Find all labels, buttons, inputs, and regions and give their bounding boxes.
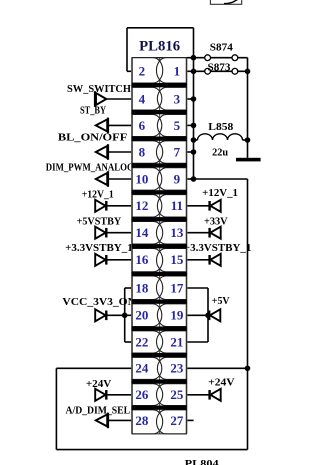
svg-text:4: 4 xyxy=(139,91,146,106)
separator bar 7 xyxy=(132,244,187,248)
svg-text:+24V: +24V xyxy=(208,378,235,389)
svg-text:1: 1 xyxy=(174,64,181,79)
node junction S873 right end xyxy=(245,69,251,75)
separator bar 5 xyxy=(132,190,187,194)
pin 27 outline xyxy=(156,410,186,434)
node pin5 junction xyxy=(191,123,197,129)
wire pin 3 stub xyxy=(187,98,194,100)
port arrow ST_BY (pin 6) xyxy=(96,118,132,134)
pin 7 cell xyxy=(156,141,186,164)
svg-text:24: 24 xyxy=(135,361,149,376)
pin 17 outline xyxy=(156,276,186,300)
svg-text:23: 23 xyxy=(170,361,184,376)
pin 26 outline xyxy=(132,384,163,406)
wire pin 5 stub xyxy=(187,124,194,126)
pin 20 outline xyxy=(132,304,162,327)
node pin7 junction xyxy=(191,149,197,155)
power arrow +33V (pin 13) xyxy=(187,227,221,239)
node VCC_3V3_ON junction xyxy=(122,313,128,319)
power arrow +5VSTBY (pin 14) xyxy=(95,227,131,239)
pin 4 cell xyxy=(132,87,162,110)
wire pin27 stub xyxy=(187,419,194,421)
pin 1 outline xyxy=(156,58,186,83)
pin 12 cell xyxy=(132,195,162,218)
svg-text:17: 17 xyxy=(170,280,184,295)
svg-text:3: 3 xyxy=(174,91,181,106)
power arrow +12V_1 (pin 11) xyxy=(187,200,221,212)
svg-text:22: 22 xyxy=(135,334,148,349)
svg-text:2: 2 xyxy=(139,64,146,79)
svg-text:L858: L858 xyxy=(208,122,233,133)
wire pin23 stub xyxy=(187,367,248,369)
separator bar 13 xyxy=(132,406,187,410)
pin 21 cell xyxy=(157,331,187,353)
wire left rail up to pin24 xyxy=(56,368,131,449)
svg-text:21: 21 xyxy=(170,334,183,349)
power arrow +3.3VSTBY_1 (pin 15) xyxy=(187,254,221,266)
wire S874/S873 to L858 right terminal xyxy=(247,58,249,140)
svg-text:A/D_DIM_SEL: A/D_DIM_SEL xyxy=(66,406,131,417)
svg-text:18: 18 xyxy=(135,280,149,295)
svg-text:15: 15 xyxy=(170,252,184,267)
pin 22 outline xyxy=(132,331,163,353)
svg-text:26: 26 xyxy=(135,387,149,402)
pin 6 cell xyxy=(132,114,162,136)
separator bar 2 xyxy=(132,110,187,114)
pin 28 cell xyxy=(132,410,163,434)
svg-text:10: 10 xyxy=(135,171,148,186)
pin 4 outline xyxy=(132,87,162,110)
svg-text:16: 16 xyxy=(135,252,149,267)
power arrow +5V (pins 17,19,21) xyxy=(208,309,220,321)
off-page symbol box (top edge, partially cut) xyxy=(210,0,241,4)
wire right rail down xyxy=(247,179,249,450)
svg-text:PL816: PL816 xyxy=(139,39,180,55)
pin 22 cell xyxy=(132,331,163,353)
port arrow A/D_DIM_SEL (pin 28) xyxy=(96,413,132,429)
wire pin2 loop: stub left, up, across top, down to bus xyxy=(127,28,194,72)
svg-text:12: 12 xyxy=(135,198,148,213)
pin 28 outline xyxy=(132,410,163,434)
separator bar 11 xyxy=(132,353,187,357)
pin 17 cell xyxy=(156,276,186,300)
svg-text:28: 28 xyxy=(135,413,149,428)
pin 13 outline xyxy=(156,221,186,244)
port arrow SW_SWITCH (pin 4) xyxy=(94,91,132,107)
power arrow +12V_1 (pin 12) xyxy=(95,200,131,212)
svg-text:DIM_PWM_ANALOG: DIM_PWM_ANALOG xyxy=(46,163,134,174)
svg-text:19: 19 xyxy=(170,308,184,323)
pin 8 cell xyxy=(132,141,163,164)
svg-text:BL_ON/OFF: BL_ON/OFF xyxy=(58,132,127,143)
pin 25 outline xyxy=(156,384,186,406)
separator bar 12 xyxy=(132,379,187,383)
svg-text:ST_BY: ST_BY xyxy=(80,105,106,116)
connector grid frame xyxy=(132,58,194,434)
pin 19 outline xyxy=(157,304,186,327)
svg-text:+3.3VSTBY_1: +3.3VSTBY_1 xyxy=(184,243,252,254)
pin 2 cell xyxy=(132,58,163,83)
pin 1 cell xyxy=(156,58,186,83)
pin 15 outline xyxy=(157,248,187,271)
separator bar 4 xyxy=(132,163,187,167)
pin 24 outline xyxy=(132,357,162,379)
pin 5 outline xyxy=(157,114,186,136)
pin 2 outline xyxy=(132,58,163,83)
wire pin 9 stub xyxy=(187,178,194,180)
svg-text:7: 7 xyxy=(174,144,181,159)
node junction bus/pin1/S873 xyxy=(191,69,197,75)
svg-text:+3.3VSTBY_1: +3.3VSTBY_1 xyxy=(65,243,133,254)
pin 9 cell xyxy=(157,168,186,191)
pin 10 outline xyxy=(132,168,162,191)
pin 23 outline xyxy=(157,357,186,379)
svg-text:13: 13 xyxy=(170,225,184,240)
pin 15 cell xyxy=(157,248,187,271)
node L858 left junction xyxy=(191,137,197,143)
jumper S873 xyxy=(194,68,248,74)
svg-text:27: 27 xyxy=(170,413,184,428)
node pin23 junction xyxy=(245,366,251,372)
wire right bus (pins 1,3,5,7,9) xyxy=(193,58,195,179)
node L858 right junction xyxy=(245,137,251,143)
pin 16 outline xyxy=(132,248,162,271)
wire bottom rail xyxy=(56,449,247,451)
wire +5V tie (pins 17,19,21) xyxy=(187,288,208,342)
svg-text:20: 20 xyxy=(135,308,148,323)
pin 6 outline xyxy=(132,114,162,136)
svg-text:S874: S874 xyxy=(210,43,233,54)
pin 8 outline xyxy=(132,141,163,164)
wire VCC_3V3_ON vertical tie xyxy=(125,288,132,342)
separator bar 1 xyxy=(132,83,187,87)
svg-text:6: 6 xyxy=(139,118,146,133)
pin 5 cell xyxy=(157,114,186,136)
separator bar 3 xyxy=(132,137,187,141)
power arrow VCC_3V3_ON (pins 18,20,22) xyxy=(95,309,125,321)
node junction bus/S874 xyxy=(191,55,197,61)
inductor L858 22u xyxy=(194,134,248,140)
pin 11 cell xyxy=(157,195,186,218)
wire pin 1 stub xyxy=(187,70,194,72)
pin 27 cell xyxy=(156,410,186,434)
port arrow DIM_PWM_ANALOG (pin 10) xyxy=(96,171,132,187)
pin 12 outline xyxy=(132,195,162,218)
svg-text:+33V: +33V xyxy=(204,216,228,227)
node +5V junction xyxy=(205,313,211,319)
svg-text:+5VSTBY: +5VSTBY xyxy=(77,216,122,227)
separator bar 9 xyxy=(132,300,187,304)
pin 26 cell xyxy=(132,384,163,406)
separator bar 8 xyxy=(132,272,187,276)
pin 14 outline xyxy=(132,221,163,244)
pin 11 outline xyxy=(157,195,186,218)
pin 18 outline xyxy=(132,276,163,300)
pin 7 outline xyxy=(156,141,186,164)
separator bar 6 xyxy=(132,217,187,221)
power arrow +24V (pin 26) xyxy=(95,389,131,401)
pin 21 outline xyxy=(157,331,187,353)
wire pin9 net to right rail xyxy=(194,178,248,180)
pin 14 cell xyxy=(132,221,163,244)
separator bar 10 xyxy=(132,327,187,331)
svg-text:9: 9 xyxy=(174,171,181,186)
pin 10 cell xyxy=(132,168,162,191)
svg-text:8: 8 xyxy=(139,144,146,159)
pin 19 cell xyxy=(157,304,186,327)
svg-text:S873: S873 xyxy=(208,63,231,74)
ground symbol xyxy=(236,140,261,161)
svg-text:11: 11 xyxy=(171,198,183,213)
svg-text:14: 14 xyxy=(135,225,149,240)
power arrow +24V (pin 25) xyxy=(187,389,221,401)
svg-text:22u: 22u xyxy=(212,147,228,158)
port arrow BL_ON/OFF (pin 8) xyxy=(96,144,132,160)
pin 3 cell xyxy=(157,87,186,110)
node pin9 junction xyxy=(191,176,197,182)
pin 3 outline xyxy=(157,87,186,110)
power arrow +3.3VSTBY_1 (pin 16) xyxy=(95,254,131,266)
pin 25 cell xyxy=(156,384,186,406)
svg-text:PL804: PL804 xyxy=(185,459,219,465)
pin 16 cell xyxy=(132,248,162,271)
svg-text:5: 5 xyxy=(174,118,181,133)
pin 9 outline xyxy=(157,168,186,191)
pin 13 cell xyxy=(156,221,186,244)
svg-text:+12V_1: +12V_1 xyxy=(82,190,114,201)
svg-text:25: 25 xyxy=(170,387,184,402)
pin 24 cell xyxy=(132,357,162,379)
jumper S874 xyxy=(187,55,248,61)
pin 23 cell xyxy=(157,357,186,379)
pin 20 cell xyxy=(132,304,162,327)
svg-text:SW_SWITCH: SW_SWITCH xyxy=(67,84,131,95)
node pin3 junction xyxy=(191,96,197,102)
svg-text:+24V: +24V xyxy=(86,379,112,390)
svg-text:+5V: +5V xyxy=(212,296,230,307)
svg-text:+12V_1: +12V_1 xyxy=(202,188,238,199)
pin 18 cell xyxy=(132,276,163,300)
wire pin 7 stub xyxy=(187,151,194,153)
